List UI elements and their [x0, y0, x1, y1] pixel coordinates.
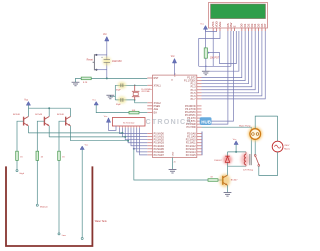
svg-text:CTRONICS: CTRONICS	[146, 117, 193, 126]
svg-text:High: High	[20, 173, 25, 175]
wire box right riser	[230, 31, 232, 66]
resistor R5 1K	[58, 151, 61, 160]
U1 right pin stubs and labels	[197, 77, 202, 79]
base wire	[59, 121, 66, 151]
collector lead	[70, 108, 72, 116]
motor M1 Water Pump	[248, 127, 262, 141]
svg-text:P0.6/AD6: P0.6/AD6	[154, 151, 165, 154]
wire RW to ground rail	[210, 31, 239, 71]
wire Vcc to pot top	[205, 29, 207, 48]
svg-text:ALE: ALE	[154, 108, 159, 111]
wire bus LCD D0-D7 to P1.0-P1.7	[202, 31, 242, 78]
wire relay drive	[134, 149, 208, 180]
wire mains bottom loop	[259, 152, 278, 175]
svg-text:12V Relay: 12V Relay	[243, 169, 254, 171]
resistor pack RP1 8x Terminal	[112, 118, 145, 127]
svg-text:40: 40	[171, 80, 173, 82]
wire Q4 collector	[227, 166, 229, 175]
svg-text:P0.2/AD2: P0.2/AD2	[154, 139, 165, 142]
svg-text:Low: Low	[62, 235, 66, 237]
base wire	[37, 121, 44, 151]
svg-text:33pF: 33pF	[116, 104, 121, 106]
ground (reset)	[72, 81, 80, 83]
svg-text:Medium: Medium	[40, 207, 48, 209]
wire left cap bus	[114, 85, 116, 100]
wire VEE box loop	[199, 31, 220, 66]
base wire	[17, 121, 24, 151]
svg-text:P2.3/A11: P2.3/A11	[186, 142, 196, 145]
svg-text:P1.3: P1.3	[191, 86, 197, 89]
wire VDD to Vcc arrow	[206, 29, 217, 31]
svg-text:D7: D7	[263, 23, 267, 27]
svg-text:P2.7/A15: P2.7/A15	[186, 154, 197, 157]
svg-text:33pF: 33pF	[116, 89, 121, 91]
water tank	[6, 166, 92, 246]
collector lead	[27, 108, 29, 116]
crystal X1 11.0592MHz	[134, 85, 136, 87]
svg-text:P3.1/TXD: P3.1/TXD	[185, 108, 196, 111]
wire bus RP1 to P0.0-P0.7	[120, 128, 148, 134]
wire RST net	[91, 77, 147, 79]
svg-text:P3.0/RXD: P3.0/RXD	[185, 105, 196, 108]
svg-text:P1.4: P1.4	[191, 89, 197, 92]
junction node T2 collector	[48, 107, 50, 109]
wire VSS to ground rail	[212, 31, 214, 66]
svg-text:10uF/16V: 10uF/16V	[112, 61, 122, 63]
push button SW1 Reset	[95, 54, 107, 56]
wire to ground (crystal)	[110, 95, 115, 97]
probe Medium	[36, 160, 38, 204]
LCD module LM016L	[209, 3, 268, 29]
ground (LCD/pot)	[202, 70, 210, 72]
svg-text:20: 20	[174, 162, 176, 164]
potentiometer RV1 10K POT	[204, 48, 207, 58]
capacitor C1 33pF	[118, 82, 126, 89]
wire R6 to Q4 base	[218, 179, 223, 181]
wire ground rail	[199, 65, 231, 67]
svg-text:P2.2/A10: P2.2/A10	[186, 139, 197, 142]
ground (Q4)	[224, 192, 232, 194]
svg-text:BC547: BC547	[231, 179, 238, 181]
junction node reset/RST	[106, 77, 108, 79]
wire switch to pump	[254, 139, 256, 154]
wire XTAL1 net	[115, 84, 147, 86]
capacitor C3 10uF/16V	[103, 57, 111, 66]
wire relay top rail	[228, 151, 247, 153]
svg-text:BC548: BC548	[35, 114, 42, 116]
resistor R6 1K	[208, 179, 218, 182]
wire collector rail	[28, 107, 70, 109]
svg-text:10K: 10K	[132, 110, 136, 112]
svg-text:P0.0/AD0: P0.0/AD0	[154, 133, 165, 136]
svg-text:Mains: Mains	[284, 148, 291, 150]
svg-text:P1.1/T2EX: P1.1/T2EX	[184, 80, 196, 83]
svg-text:EA: EA	[154, 112, 158, 115]
svg-text:XTAL1: XTAL1	[154, 84, 162, 87]
svg-text:Water Tank: Water Tank	[95, 220, 108, 223]
svg-text:BC548: BC548	[57, 114, 64, 116]
svg-text:1N4007: 1N4007	[214, 160, 222, 162]
junction node P0.5/relay	[133, 148, 135, 150]
wire Vcc to U1	[174, 63, 176, 75]
net bus on P2 pins	[201, 132, 203, 156]
relay core plates	[249, 154, 251, 165]
wire R2 to EA pin	[139, 112, 147, 114]
svg-text:P0.7/AD7: P0.7/AD7	[154, 154, 165, 157]
svg-text:P1.0/T2: P1.0/T2	[187, 77, 196, 80]
diode D1 1N4007	[223, 155, 232, 164]
capacitor C2 33pF	[118, 96, 126, 103]
wire resistor to ground	[76, 78, 82, 82]
wire E to P3.6	[202, 31, 234, 121]
svg-text:PSEN: PSEN	[154, 105, 161, 108]
base bar	[65, 117, 67, 126]
wire pot wiper riser	[210, 31, 236, 64]
svg-text:P1.5: P1.5	[191, 92, 197, 95]
ground (crystal)	[106, 94, 114, 96]
wire U1 GND pin	[172, 158, 174, 170]
svg-text:RST: RST	[154, 77, 159, 80]
svg-text:BC548: BC548	[13, 114, 20, 116]
svg-text:230V: 230V	[284, 145, 290, 147]
probe High	[16, 160, 18, 169]
emitter lead with arrow	[44, 123, 49, 126]
relay RL1 coil	[241, 153, 250, 166]
resistor R2 10K	[129, 111, 139, 114]
probe Low	[58, 160, 60, 233]
ground (U1)	[169, 168, 177, 170]
U1 left pin stubs and labels	[147, 77, 152, 79]
wire Vcc down to reset node	[106, 41, 108, 60]
wire Vcc to R2	[96, 105, 129, 113]
resistor R4 1K	[36, 151, 39, 160]
wire pump top rail	[255, 116, 277, 129]
wire RS to P3.7	[202, 31, 228, 124]
svg-text:P0.4/AD4: P0.4/AD4	[154, 145, 165, 148]
wire Q3 emitter to P0.3	[71, 140, 129, 142]
svg-text:P0.1/AD1: P0.1/AD1	[154, 136, 165, 139]
wire relay bottom rail	[228, 165, 247, 167]
wire Q4 emitter to ground	[227, 185, 229, 192]
RP1 pin stubs	[119, 126, 121, 128]
wire Vcc to relay rail	[235, 145, 237, 152]
wire Q2 emitter to P0.2	[49, 136, 125, 138]
relay switch	[254, 155, 256, 157]
resistor R3 1K	[16, 151, 19, 160]
base bar	[43, 117, 45, 126]
AC source V1 230V Mains	[277, 116, 279, 141]
svg-text:11.0592MHz: 11.0592MHz	[141, 89, 152, 91]
svg-text:P0.5/AD5: P0.5/AD5	[154, 148, 165, 151]
wire Vcc probe	[81, 150, 83, 238]
emitter lead with arrow	[24, 123, 29, 126]
svg-text:VEE: VEE	[218, 22, 222, 28]
transistor Q4 BC547	[219, 174, 230, 187]
svg-text:P2.5/A13: P2.5/A13	[186, 148, 197, 151]
microcontroller U1 AT89C51	[153, 75, 197, 157]
svg-text:10K POT: 10K POT	[210, 58, 220, 60]
wire armature link from P3.7 area	[202, 127, 252, 154]
svg-text:XTAL2: XTAL2	[154, 102, 162, 105]
base bar	[23, 117, 25, 126]
svg-text:HUB: HUB	[201, 119, 211, 124]
emitter lead with arrow	[66, 123, 71, 126]
svg-text:P3.2/INT0: P3.2/INT0	[185, 111, 196, 114]
svg-text:P2.6/A14: P2.6/A14	[186, 151, 197, 154]
resistor R1 8.2K	[81, 77, 91, 80]
svg-text:P2.0/A8: P2.0/A8	[187, 133, 196, 136]
svg-text:Reset: Reset	[87, 59, 94, 62]
wire RP1 common to Vcc	[109, 122, 117, 130]
svg-text:P2.1/A9: P2.1/A9	[187, 136, 196, 139]
svg-text:P1.6: P1.6	[191, 95, 197, 98]
wire Q1 emitter to P0.1	[28, 132, 122, 134]
svg-text:P1.7: P1.7	[191, 98, 197, 101]
wire pot bottom to ground	[205, 58, 207, 71]
svg-text:8.2K: 8.2K	[83, 82, 88, 84]
collector lead	[48, 108, 50, 116]
svg-text:P3.7/RD: P3.7/RD	[187, 126, 196, 129]
svg-text:P0.3/AD3: P0.3/AD3	[154, 142, 165, 145]
wire XTAL2 net	[115, 99, 134, 101]
svg-text:GND: GND	[173, 151, 175, 156]
svg-text:E: E	[232, 25, 236, 27]
svg-text:P1.2: P1.2	[191, 83, 197, 86]
svg-text:P2.4/A12: P2.4/A12	[186, 145, 197, 148]
